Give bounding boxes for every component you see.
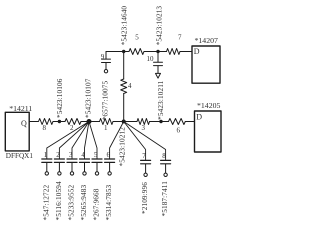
svg-text:8: 8: [162, 152, 166, 160]
wire fan node2 to C7: [124, 122, 146, 161]
resistor R7: [167, 49, 181, 55]
port terminal of C9: [104, 70, 107, 73]
wire R5 to R7: [144, 51, 167, 53]
node fan-right junction dot: [122, 120, 126, 124]
svg-text:7: 7: [178, 34, 182, 42]
svg-text:*14205: *14205: [197, 101, 220, 110]
resistor R6: [169, 119, 186, 125]
resistor R3: [137, 119, 150, 125]
svg-text:*5187:7411: *5187:7411: [161, 181, 169, 217]
svg-text:*14207: *14207: [195, 36, 218, 45]
capacitor C2: [54, 159, 64, 172]
svg-text:D: D: [194, 47, 200, 56]
capacitor C4: [80, 159, 90, 172]
svg-text:6: 6: [177, 126, 181, 134]
wire R7 to U2: [180, 51, 192, 53]
resistor R5: [129, 49, 144, 55]
resistor R8: [39, 119, 54, 125]
node fan-left junction dot: [87, 119, 92, 124]
IC U3 *14205 box: [195, 111, 222, 152]
wire fan node1 to C5: [89, 122, 97, 159]
svg-text:6: 6: [107, 151, 111, 159]
capacitor C5: [92, 159, 102, 172]
svg-text:3: 3: [142, 124, 146, 132]
node dot top of R4: [122, 50, 125, 53]
svg-text:*6577:10075: *6577:10075: [102, 81, 110, 121]
port terminal of C8: [164, 173, 167, 176]
wire fan node1 to C4: [85, 122, 90, 159]
IC U1 DFFQX1 box: [5, 112, 29, 151]
svg-text:DFFQX1: DFFQX1: [6, 152, 34, 160]
svg-text:9: 9: [101, 53, 105, 61]
svg-text:*5233:9552: *5233:9552: [68, 184, 76, 220]
svg-text:8: 8: [43, 124, 47, 132]
svg-text:*267:9668: *267:9668: [93, 188, 101, 220]
capacitor C9: [102, 52, 111, 70]
node dot top of C10: [156, 50, 159, 53]
svg-text:5: 5: [94, 151, 98, 159]
wire R8 to R2: [53, 121, 65, 123]
port terminal of C2: [58, 172, 61, 175]
svg-text:*5423:10212: *5423:10212: [118, 127, 126, 167]
svg-text:*5423:10213: *5423:10213: [155, 6, 163, 46]
wire fan node1 to C2: [59, 122, 89, 159]
svg-text:*2109:996: *2109:996: [141, 182, 149, 214]
port terminal of C5: [95, 172, 98, 175]
wire R3 to R6: [150, 121, 169, 123]
wire fan node1 to C1: [47, 122, 89, 159]
wire Q to R8: [29, 121, 38, 123]
wire top-left corner to R5: [106, 51, 129, 53]
svg-text:*5423:10107: *5423:10107: [85, 78, 93, 118]
capacitor C10: [154, 52, 163, 74]
svg-text:1: 1: [104, 124, 108, 132]
wire R1 to node2: [113, 121, 137, 123]
port terminal of C7: [144, 173, 147, 176]
resistor R4: [121, 79, 127, 94]
wire R6 to U3: [185, 121, 194, 123]
wire R4 to lower wire: [123, 94, 125, 122]
svg-text:*5423:10211: *5423:10211: [157, 80, 165, 119]
port terminal of C1: [45, 172, 48, 175]
svg-text:4: 4: [81, 151, 85, 159]
svg-text:*5423:14640: *5423:14640: [121, 6, 129, 46]
wire R2 to node1: [81, 121, 100, 123]
wire fan node2 to C8: [124, 122, 166, 161]
resistor R2: [65, 119, 81, 125]
node *5423:10106 junction dot: [58, 120, 61, 123]
svg-text:*5314:7853: *5314:7853: [105, 184, 113, 220]
svg-text:4: 4: [128, 82, 132, 90]
ground arrow terminal of C10: [156, 73, 161, 78]
svg-text:*14211: *14211: [9, 104, 32, 113]
svg-text:2: 2: [56, 151, 60, 159]
resistor R1: [100, 119, 114, 125]
capacitor C3: [67, 159, 77, 172]
svg-text:*5116:10594: *5116:10594: [55, 181, 63, 220]
IC U2 *14207 box: [192, 46, 220, 83]
svg-text:*5423:10106: *5423:10106: [56, 78, 64, 118]
svg-text:7: 7: [142, 152, 146, 160]
svg-text:10: 10: [147, 55, 155, 63]
svg-text:1: 1: [44, 151, 48, 159]
capacitor C6: [105, 159, 115, 172]
wire fan node2 to C6: [110, 122, 124, 159]
svg-text:3: 3: [69, 151, 73, 159]
port terminal of C4: [83, 172, 86, 175]
node *5423:10211 junction dot: [159, 120, 162, 123]
capacitor C7: [141, 160, 151, 173]
svg-text:*547:12722: *547:12722: [42, 184, 50, 220]
svg-text:D: D: [196, 112, 202, 121]
capacitor C1: [42, 159, 52, 172]
port terminal of C3: [70, 172, 73, 175]
port terminal of C6: [108, 172, 111, 175]
svg-text:*5265:9483: *5265:9483: [80, 184, 88, 220]
svg-text:5: 5: [135, 34, 139, 42]
svg-text:Q: Q: [21, 119, 27, 128]
wire top to R4: [123, 52, 125, 80]
capacitor C8: [161, 160, 171, 173]
wire fan node1 to C3: [72, 122, 89, 159]
